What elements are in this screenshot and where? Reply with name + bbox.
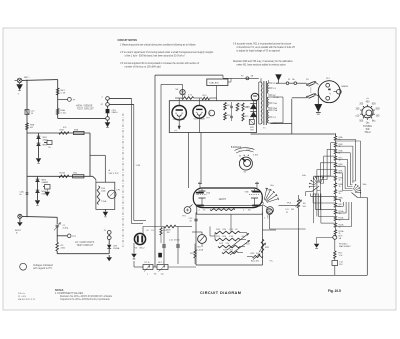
svg-text:10W: 10W: [246, 150, 250, 152]
svg-text:C9: C9: [240, 105, 242, 107]
svg-text:PL 4 KS: PL 4 KS: [18, 296, 26, 298]
svg-text:V1 A: V1 A: [173, 118, 178, 121]
svg-text:NE-2: NE-2: [140, 248, 146, 250]
svg-text:Resistors No 10%+-10%% R=2%0: Resistors No 10%+-10%% R=2%00M W=-1/4wat…: [60, 295, 113, 298]
svg-text:1N34A: 1N34A: [113, 247, 120, 250]
svg-text:Fig. 10.5: Fig. 10.5: [328, 289, 341, 293]
svg-text:4Ω: 4Ω: [30, 127, 33, 129]
svg-text:CIRCUIT NOTES: CIRCUIT NOTES: [118, 39, 138, 42]
svg-text:50V: 50V: [339, 264, 343, 266]
svg-text:1 COMPONENT VALUES: 1 COMPONENT VALUES: [55, 292, 83, 295]
svg-text:R10B: R10B: [60, 173, 66, 175]
svg-text:V5A: V5A: [206, 192, 211, 195]
svg-text:O 48: O 48: [61, 92, 67, 94]
svg-text:MR5: MR5: [246, 107, 250, 109]
svg-text:B RANGE: B RANGE: [231, 146, 242, 149]
svg-text:of transformer T2, as to paral: of transformer T2, as to parallel with t…: [237, 46, 296, 49]
svg-text:1k: 1k: [339, 186, 341, 188]
svg-text:with regard to HT-: with regard to HT-: [33, 267, 53, 270]
svg-text:47000: 47000: [174, 240, 181, 242]
svg-text:XTAL A35: XTAL A35: [209, 82, 219, 85]
svg-text:TEST CIRCUIT: TEST CIRCUIT: [77, 244, 94, 247]
svg-text:ADJ 400: ADJ 400: [251, 260, 260, 263]
svg-text:Resistors R20 and T26 may, if: Resistors R20 and T26 may, if necessary …: [233, 60, 293, 63]
svg-text:2k: 2k: [339, 179, 341, 181]
svg-text:R19: R19: [245, 116, 249, 118]
svg-text:PL1.A: PL1.A: [273, 96, 279, 99]
svg-text:4 S/S: 4 S/S: [253, 155, 259, 157]
svg-text:number of the buy on 100 uMV a: number of the buy on 100 uMV add.: [125, 65, 162, 68]
svg-text:1M: 1M: [167, 232, 170, 234]
svg-text:+1kc: +1kc: [238, 151, 242, 153]
svg-text:1u0: 1u0: [161, 274, 164, 276]
svg-text:Capacitors No 20%+-20%%uF/mfd: Capacitors No 20%+-20%%uF/mfd p=picofara…: [60, 298, 110, 301]
svg-text:TUNING: TUNING: [363, 126, 372, 128]
svg-text:V2 B: V2 B: [194, 118, 199, 120]
svg-text:to adjust for liquid voltage o: to adjust for liquid voltage of V3 an ap…: [237, 50, 281, 53]
svg-text:TP A: TP A: [287, 202, 292, 205]
svg-text:meter M1, have sections added: meter M1, have sections added to resisto…: [237, 64, 287, 67]
svg-text:MAINS: MAINS: [342, 85, 349, 88]
svg-text:1M: 1M: [303, 203, 306, 205]
svg-text:265 V P-P: 265 V P-P: [109, 173, 120, 175]
svg-text:3 If accurate works, R11 a i: 3 If accurate works, R11 a incorporated …: [233, 42, 292, 45]
svg-text:MA SR 4679 5 P1: MA SR 4679 5 P1: [18, 298, 36, 301]
svg-text:5M: 5M: [291, 209, 294, 211]
svg-text:OA81+: OA81+: [112, 111, 119, 114]
svg-text:O 4Ω: O 4Ω: [61, 112, 67, 114]
svg-text:R15: R15: [227, 105, 231, 107]
svg-text:TEST CIRCUIT: TEST CIRCUIT: [77, 108, 94, 111]
svg-text:1 Measuring-points are criti: 1 Measuring-points are critical during t…: [120, 44, 196, 47]
svg-text:T2A-2: T2A-2: [364, 131, 371, 134]
svg-text:R16: R16: [227, 115, 231, 117]
svg-text:OA81: OA81: [43, 138, 49, 141]
svg-text:100 x/s: 100 x/s: [18, 293, 26, 295]
svg-text:R2: R2: [154, 274, 156, 276]
svg-text:T11A: T11A: [101, 200, 107, 203]
svg-text:3-30p: 3-30p: [63, 227, 69, 229]
svg-text:V5B: V5B: [245, 192, 250, 194]
svg-text:NET+: NET+: [24, 77, 30, 79]
svg-text:TP3: TP3: [206, 118, 210, 120]
svg-text:6.3: 6.3: [273, 88, 276, 90]
svg-text:2 If no-return signal level: 2 If no-return signal level V4 is being …: [120, 51, 214, 54]
svg-text:3 If normal supplies F20 is: 3 If normal supplies F20 is incorporated…: [120, 62, 199, 65]
svg-text:MAX 600MV: MAX 600MV: [339, 245, 351, 248]
svg-text:S/R: S/R: [366, 129, 370, 131]
svg-text:of the 1 kc/s - 500 Ma band, h: of the 1 kc/s - 500 Ma band, has been ar…: [125, 54, 185, 57]
svg-text:12AX7: 12AX7: [219, 198, 227, 201]
svg-text:1k: 1k: [148, 262, 150, 264]
svg-text:2k: 2k: [339, 193, 341, 195]
svg-text:CIRCUIT DIAGRAM: CIRCUIT DIAGRAM: [200, 291, 241, 295]
svg-text:R5B: R5B: [60, 130, 65, 132]
svg-text:6.3: 6.3: [273, 117, 276, 119]
svg-text:0-1mA: 0-1mA: [197, 248, 204, 251]
svg-text:6AU6: 6AU6: [180, 118, 186, 121]
svg-text:R9B: R9B: [74, 130, 79, 132]
svg-text:1.2M: 1.2M: [136, 165, 141, 167]
